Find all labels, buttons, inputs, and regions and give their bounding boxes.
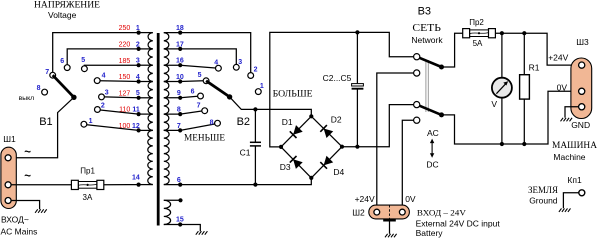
secondary tap 9 bbox=[164, 97, 180, 99]
B2 contact 3 bbox=[233, 64, 239, 70]
junction R1 top bbox=[522, 31, 526, 35]
svg-text:127: 127 bbox=[119, 90, 131, 97]
terminal Кп1 bbox=[579, 190, 585, 196]
diode D1 bbox=[281, 116, 311, 147]
svg-text:4: 4 bbox=[136, 74, 140, 81]
primary tap 14 bbox=[139, 184, 153, 186]
wire B3 pole1 DC contact to Ш2 +24V bbox=[377, 73, 414, 209]
B1 contact 5 bbox=[82, 66, 88, 72]
B3 pole1 contact AC bbox=[414, 54, 420, 60]
auxiliary tap 15 bbox=[164, 224, 180, 226]
wire B2 pivot to node bbox=[230, 97, 256, 110]
svg-text:6: 6 bbox=[177, 177, 181, 184]
wire Ш1 pin3 to ground bbox=[11, 201, 39, 210]
bridge node bottom bbox=[309, 176, 313, 180]
B1 contact 6 bbox=[64, 65, 70, 71]
svg-text:AC: AC bbox=[427, 128, 439, 138]
wire bridge left node to top bus bbox=[270, 32, 414, 146]
svg-text:D2: D2 bbox=[331, 115, 342, 125]
wire B3 pole2 to 0V bus bbox=[442, 91, 579, 144]
svg-text:В3: В3 bbox=[418, 6, 431, 18]
wire B1 contact5 to tap3 bbox=[84, 64, 138, 67]
resistor R1 bbox=[520, 75, 530, 99]
ground (aux winding) bbox=[196, 231, 199, 235]
B2 contact 7 bbox=[202, 108, 208, 114]
svg-text:+24V: +24V bbox=[355, 194, 375, 204]
svg-text:Ш2: Ш2 bbox=[352, 207, 365, 217]
svg-text:СЕТЬ: СЕТЬ bbox=[412, 23, 441, 34]
svg-text:DC: DC bbox=[426, 159, 438, 169]
B1 contact 4 bbox=[94, 78, 100, 84]
svg-text:6: 6 bbox=[60, 58, 64, 65]
wire C2...C5 bottom bbox=[356, 89, 358, 147]
wire R1 bottom bbox=[523, 99, 525, 144]
voltmeter V1 bbox=[492, 78, 512, 98]
wire C2...C5 top bbox=[356, 32, 358, 83]
auxiliary winding top tap bbox=[164, 199, 181, 201]
secondary tap 6 bbox=[164, 184, 180, 186]
svg-text:0V: 0V bbox=[405, 194, 416, 204]
wire B3 pole1 to fuse Пр2 bbox=[442, 33, 463, 67]
wire Пр2 to Ш3 +24V bbox=[495, 33, 578, 65]
wire Ш1 pin2 to fuse bbox=[11, 184, 71, 186]
Ш1 pin 3 bbox=[5, 198, 11, 204]
svg-text:Voltage: Voltage bbox=[48, 10, 77, 20]
svg-text:AC Mains: AC Mains bbox=[1, 227, 38, 237]
svg-text:Ground: Ground bbox=[529, 196, 558, 206]
transformer auxiliary winding bbox=[164, 200, 171, 224]
svg-text:Пр2: Пр2 bbox=[469, 18, 484, 27]
B3 mechanical link bbox=[425, 60, 427, 112]
secondary tap 7 bbox=[164, 129, 180, 131]
svg-text:C2...C5: C2...C5 bbox=[323, 73, 352, 83]
svg-text:4: 4 bbox=[214, 59, 218, 66]
fuse Пр2 bbox=[470, 30, 489, 37]
secondary tap 18 bbox=[164, 32, 180, 34]
svg-text:250: 250 bbox=[119, 25, 131, 32]
junction voltmeter bottom bbox=[500, 142, 504, 146]
svg-text:7: 7 bbox=[177, 123, 181, 130]
svg-text:0V: 0V bbox=[557, 83, 568, 93]
svg-text:8: 8 bbox=[210, 120, 214, 127]
svg-text:17: 17 bbox=[176, 41, 184, 48]
svg-text:БОЛЬШЕ: БОЛЬШЕ bbox=[273, 89, 314, 99]
ground (Ш2) bbox=[385, 234, 388, 238]
Ш2 pin +24V bbox=[374, 209, 380, 215]
transformer core bbox=[157, 33, 160, 226]
Ш3 pin +24V bbox=[579, 62, 585, 68]
svg-text:5: 5 bbox=[81, 57, 85, 64]
B2 contact 8 bbox=[215, 120, 221, 126]
wire B3 pole2 DC contact to Ш2 0V bbox=[402, 120, 413, 209]
wire C1 to bottom bus bbox=[254, 146, 256, 185]
secondary tap 16 bbox=[164, 64, 180, 66]
Ш3 pin GND bbox=[579, 104, 585, 110]
wire bottom bus tap6 to bridge bbox=[180, 178, 311, 185]
wire B1 contact6 to tap2 bbox=[67, 49, 138, 65]
B3 pole2 contact AC bbox=[414, 102, 420, 108]
Ш2 shell tab bbox=[383, 219, 396, 222]
wire voltmeter top bbox=[501, 33, 503, 77]
svg-text:В1: В1 bbox=[39, 116, 52, 128]
B2 contact 4 bbox=[216, 65, 222, 71]
B2 wiper bbox=[206, 81, 230, 97]
B1 wiper bbox=[53, 75, 74, 97]
svg-text:D3: D3 bbox=[280, 162, 291, 172]
Ш2 pin 0V bbox=[399, 209, 405, 215]
wire Кп1 to ground bbox=[563, 193, 578, 208]
AC-DC arrow bbox=[431, 142, 433, 155]
B3 pole2 contact DC bbox=[414, 117, 420, 123]
svg-text:В2: В2 bbox=[237, 116, 250, 128]
svg-text:2: 2 bbox=[101, 103, 105, 110]
svg-text:3: 3 bbox=[105, 90, 109, 97]
B3 pole2 wiper bbox=[417, 105, 442, 115]
wire B1 contact4 to tap4 bbox=[100, 80, 139, 83]
svg-text:7: 7 bbox=[197, 102, 201, 109]
junction R1 bottom bbox=[522, 142, 526, 146]
wire B2 contact8 to tap7 bbox=[180, 124, 215, 130]
wire Ш3 GND to ground bbox=[565, 107, 578, 118]
svg-text:2: 2 bbox=[254, 67, 258, 74]
Ш2 shield dashed line bbox=[389, 205, 391, 219]
svg-text:Battery: Battery bbox=[416, 228, 444, 238]
svg-text:150: 150 bbox=[119, 74, 131, 81]
secondary tap 10 bbox=[164, 81, 180, 83]
svg-text:+24V: +24V bbox=[548, 53, 568, 63]
wire B2 contact4 to tap16 bbox=[180, 65, 215, 68]
B3 pole1 common dot bbox=[439, 65, 444, 70]
Ш1 pin 1 bbox=[5, 155, 11, 161]
connector Ш1 body bbox=[1, 147, 16, 208]
wire B1 pivot to Ш1 pin1 bbox=[11, 97, 74, 158]
bridge node top bbox=[309, 114, 313, 118]
B1 contact 7 bbox=[50, 72, 56, 78]
svg-text:185: 185 bbox=[119, 58, 131, 65]
wire B2 contact5 to tap10 bbox=[180, 80, 203, 83]
secondary tap 8 bbox=[164, 113, 180, 115]
B2 contact 5 bbox=[203, 78, 209, 84]
wire node to bridge top bbox=[255, 109, 311, 116]
B3 pole1 contact DC bbox=[414, 70, 420, 76]
B2 contact 2 bbox=[248, 73, 254, 79]
diode D2 bbox=[311, 116, 342, 146]
Ш1 pin 2 bbox=[5, 182, 11, 188]
ground (GND) bbox=[561, 118, 564, 122]
svg-text:6: 6 bbox=[191, 89, 195, 96]
node B2 common bbox=[253, 107, 257, 111]
B1 contact 2 bbox=[95, 107, 101, 113]
wire B2 contact3 to tap17 bbox=[180, 49, 236, 64]
svg-text:14: 14 bbox=[132, 175, 140, 182]
wire B2 contact7 to tap8 bbox=[180, 111, 202, 114]
svg-text:Кп1: Кп1 bbox=[567, 175, 582, 185]
secondary tap 17 bbox=[164, 48, 180, 50]
wire voltmeter bottom bbox=[501, 98, 503, 144]
wire B1 contact2 to tap11 bbox=[100, 110, 138, 114]
wire B1 contact7 to tap1 bbox=[53, 33, 139, 79]
svg-text:Machine: Machine bbox=[553, 152, 585, 162]
B3 pole2 common dot bbox=[439, 112, 444, 117]
svg-text:МЕНЬШЕ: МЕНЬШЕ bbox=[184, 133, 226, 143]
svg-text:3: 3 bbox=[136, 58, 140, 65]
wire B1 contact1 to tap12 bbox=[87, 125, 139, 131]
svg-text:ВХОД – 24V: ВХОД – 24V bbox=[417, 208, 466, 217]
svg-text:~: ~ bbox=[24, 170, 31, 182]
svg-text:8: 8 bbox=[37, 85, 41, 92]
B1 contact 8 bbox=[42, 89, 48, 95]
primary tap 11 bbox=[139, 113, 153, 115]
svg-text:R1: R1 bbox=[529, 62, 540, 72]
svg-text:GND: GND bbox=[571, 120, 590, 130]
primary tap 12 bbox=[139, 129, 153, 131]
svg-text:Network: Network bbox=[411, 35, 443, 45]
capacitor C1 bbox=[250, 141, 261, 143]
wire B2 contact2 to tap18 bbox=[180, 33, 251, 73]
wire fuse to tap14 bbox=[104, 184, 139, 186]
B3 pole1 wiper bbox=[417, 57, 442, 67]
junction voltmeter top bbox=[500, 31, 504, 35]
wire R1 top bbox=[523, 33, 525, 74]
svg-text:НАПРЯЖЕНИЕ: НАПРЯЖЕНИЕ bbox=[34, 0, 101, 10]
svg-text:ВХОД~: ВХОД~ bbox=[1, 215, 29, 225]
svg-text:Пр1: Пр1 bbox=[80, 167, 95, 176]
primary tap 5 bbox=[139, 97, 153, 99]
bridge node left bbox=[279, 145, 283, 149]
wire node down to C1 bbox=[254, 109, 256, 142]
svg-text:МАШИНА: МАШИНА bbox=[552, 141, 597, 151]
primary tap 4 bbox=[139, 81, 153, 83]
svg-text:220: 220 bbox=[119, 42, 131, 49]
B2 contact 1 bbox=[255, 89, 261, 95]
svg-text:C1: C1 bbox=[240, 148, 251, 158]
svg-text:10: 10 bbox=[176, 74, 184, 81]
svg-text:ЗЕМЛЯ: ЗЕМЛЯ bbox=[528, 185, 558, 195]
primary tap 2 bbox=[139, 48, 153, 50]
svg-text:12: 12 bbox=[132, 123, 140, 130]
wire bridge right node to B3 bbox=[342, 105, 414, 147]
ground (Кп1) bbox=[559, 208, 562, 212]
svg-text:5А: 5А bbox=[473, 39, 483, 48]
svg-text:~: ~ bbox=[24, 147, 31, 159]
primary tap 1 bbox=[139, 32, 153, 34]
svg-text:15: 15 bbox=[176, 217, 184, 224]
B1 contact 3 bbox=[99, 94, 105, 100]
svg-text:V: V bbox=[491, 99, 497, 109]
svg-text:16: 16 bbox=[176, 58, 184, 65]
transformer secondary winding bbox=[164, 33, 169, 131]
svg-text:5: 5 bbox=[136, 90, 140, 97]
svg-text:2: 2 bbox=[136, 41, 140, 48]
junction C2C5 bottom bbox=[355, 145, 359, 149]
wire B2 contact6 to tap9 bbox=[180, 96, 197, 98]
wire tap15 to ground bbox=[180, 225, 200, 232]
fuse Пр1 bbox=[78, 182, 97, 189]
transformer primary winding bbox=[148, 33, 153, 131]
capacitor C2...C5 bbox=[352, 84, 364, 86]
svg-text:Ш1: Ш1 bbox=[3, 134, 16, 144]
svg-text:7: 7 bbox=[45, 69, 49, 76]
B2 pivot dot bbox=[227, 94, 232, 99]
Ш3 pin 0V bbox=[579, 88, 585, 94]
svg-text:1: 1 bbox=[89, 118, 93, 125]
B1 contact 1 bbox=[81, 121, 87, 127]
primary tap 3 bbox=[139, 64, 153, 66]
wire Ш2 shell to ground bbox=[389, 222, 391, 234]
svg-text:4: 4 bbox=[102, 72, 106, 79]
svg-text:9: 9 bbox=[177, 90, 181, 97]
svg-text:5: 5 bbox=[198, 72, 202, 79]
diode D4 bbox=[311, 147, 342, 178]
bridge node right bbox=[340, 145, 344, 149]
svg-text:3: 3 bbox=[238, 59, 242, 66]
svg-text:1: 1 bbox=[260, 83, 264, 90]
B2 contact 6 bbox=[198, 93, 204, 99]
diode D3 bbox=[281, 147, 311, 178]
svg-text:D1: D1 bbox=[282, 117, 293, 127]
svg-text:8: 8 bbox=[177, 107, 181, 114]
svg-text:18: 18 bbox=[176, 25, 184, 32]
svg-text:выкл: выкл bbox=[19, 95, 35, 102]
connector Ш3 body bbox=[571, 58, 592, 119]
svg-text:1: 1 bbox=[136, 25, 140, 32]
svg-text:D4: D4 bbox=[333, 167, 344, 177]
connector Ш2 body bbox=[369, 205, 410, 219]
junction C1/bus bbox=[253, 183, 257, 187]
B1 pivot dot bbox=[71, 95, 76, 100]
svg-text:Ш3: Ш3 bbox=[576, 37, 589, 47]
junction C2C5 top bbox=[355, 30, 359, 34]
ground (Ш1) bbox=[35, 209, 38, 213]
svg-text:3А: 3А bbox=[83, 193, 93, 202]
wire B1 contact3 to tap5 bbox=[104, 96, 138, 99]
svg-text:11: 11 bbox=[132, 107, 140, 114]
